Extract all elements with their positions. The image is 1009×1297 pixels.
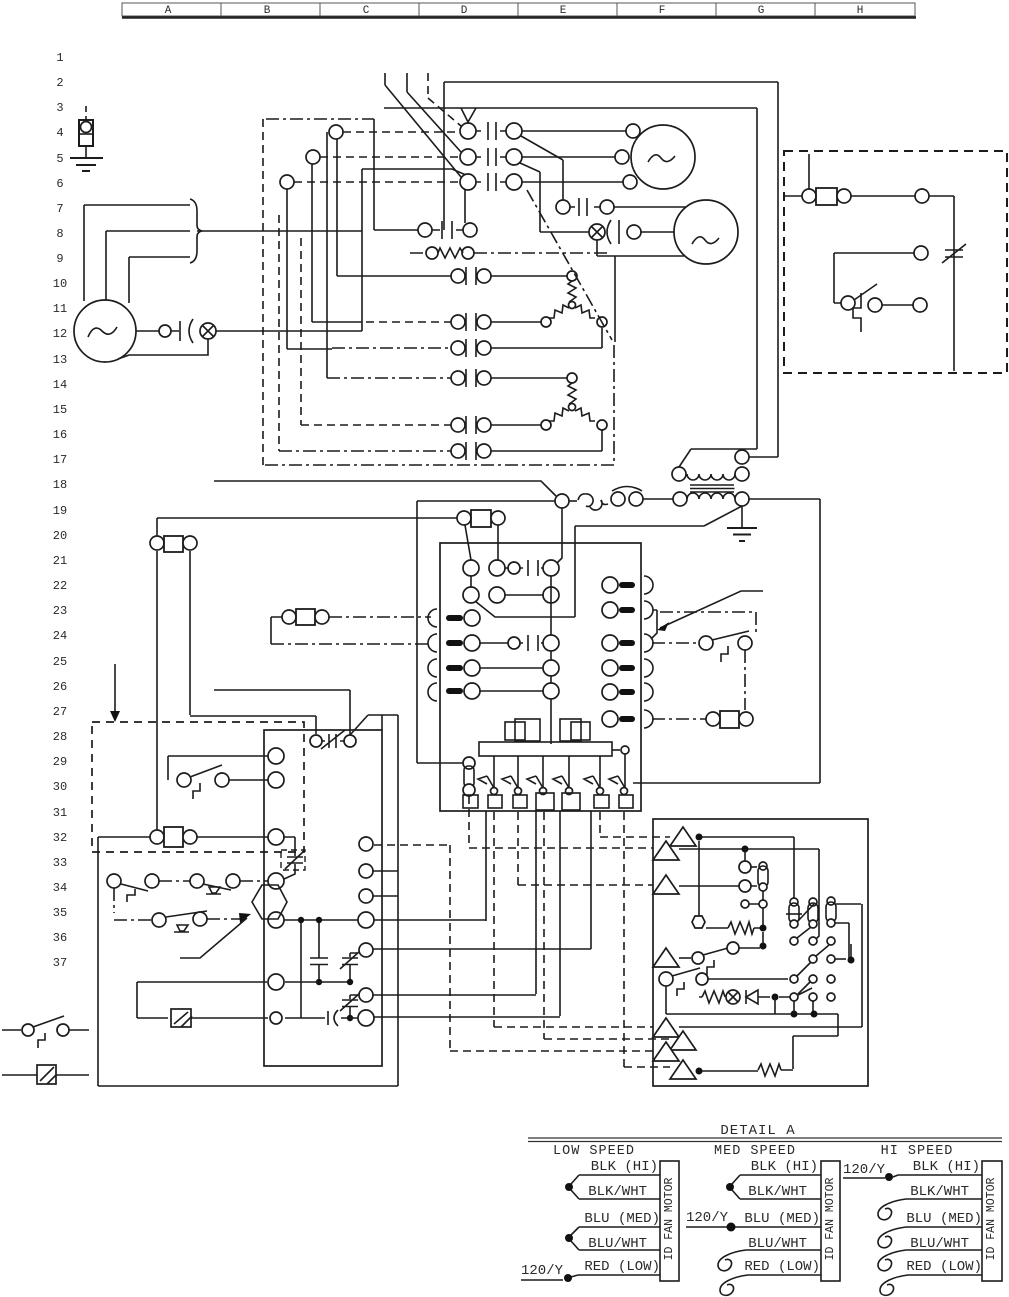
wire dash-dot top link (266, 118, 374, 120)
brace bundle (190, 199, 202, 263)
fan relay coil (98, 827, 268, 1086)
terminal board box (440, 543, 641, 811)
svg-text:24: 24 (53, 629, 67, 643)
wire low blu pair (571, 1227, 660, 1250)
svg-text:8: 8 (56, 227, 63, 241)
wire cap to motor (641, 231, 674, 233)
svg-text:LOW SPEED: LOW SPEED (553, 1144, 635, 1159)
bottom resistor (696, 1064, 793, 1076)
fan relay coil F (150, 536, 197, 552)
svg-text:16: 16 (53, 428, 67, 442)
svg-text:C: C (363, 5, 370, 17)
contact pair row12 (366, 313, 541, 331)
contact pair row8 (418, 221, 477, 239)
wire lamp bottom loop (597, 240, 684, 256)
wire tap pole1 to aux contact (521, 136, 563, 200)
plug triangle 2 (653, 841, 679, 860)
svg-text:1: 1 (56, 51, 63, 65)
contact pair row10 (337, 267, 567, 285)
board terminals left (268, 748, 284, 764)
svg-text:BLK (HI): BLK (HI) (591, 1159, 658, 1175)
node L2 plug (306, 150, 320, 164)
wire med red curl (720, 1275, 821, 1295)
wire relay bus (157, 518, 457, 536)
svg-text:3: 3 (56, 101, 63, 115)
node L3 plug (280, 175, 294, 189)
svg-text:17: 17 (53, 453, 67, 467)
thermostat dashed enclosure (92, 722, 304, 852)
wire side risers (98, 715, 398, 1086)
compressor motor M1 (74, 300, 136, 362)
svg-text:ID FAN MOTOR: ID FAN MOTOR (663, 1178, 676, 1261)
wire strip drops (494, 754, 625, 787)
board bus row (284, 919, 358, 921)
wire riser drop (444, 82, 465, 230)
wire supply stubs (385, 73, 407, 92)
wire hi red curl (880, 1275, 982, 1295)
pilot relay 2 (560, 719, 581, 741)
svg-text:6: 6 (56, 177, 63, 191)
wire timer to cam (851, 195, 915, 197)
transformer core (690, 485, 735, 492)
svg-text:32: 32 (53, 831, 67, 845)
svg-text:23: 23 (53, 604, 67, 618)
svg-text:12: 12 (53, 327, 67, 341)
wire main feed L (197, 169, 466, 331)
spare switch legend (2, 1016, 89, 1048)
svg-text:31: 31 (53, 806, 67, 820)
svg-text:7: 7 (56, 202, 63, 216)
resistor cartridge C (827, 897, 835, 905)
pressure switch (168, 756, 268, 799)
heater wye 1 (541, 271, 607, 327)
control board box (264, 730, 382, 1066)
speed switch 1 (679, 957, 691, 959)
plug triangle 6 (670, 1031, 696, 1050)
plug triangle 3 (653, 875, 679, 894)
plug triangle 1 (670, 827, 696, 846)
quick connect row 24 (428, 634, 559, 652)
wire CR drops (465, 525, 498, 560)
contact pair row15 (327, 369, 567, 387)
dropping resistor (693, 921, 760, 934)
quick connect row 26 (428, 683, 559, 701)
wire selector feed 3 (679, 885, 757, 887)
wire med blk pair (732, 1175, 821, 1199)
timer switch branch (914, 246, 928, 260)
svg-text:BLK/WHT: BLK/WHT (910, 1184, 969, 1200)
defrost relay coil (706, 711, 753, 728)
ID FAN MOTOR box low (660, 1161, 679, 1281)
resistor row9 (410, 247, 610, 259)
plug triangle 5 (653, 1018, 679, 1037)
resistor cartridge B (759, 862, 767, 870)
spare relay legend (2, 1065, 89, 1084)
svg-text:35: 35 (53, 906, 67, 920)
wire dash-dot diagonal (527, 190, 612, 340)
wire left risers (287, 132, 337, 378)
terminal row 21 (463, 560, 559, 576)
svg-text:37: 37 (53, 956, 67, 970)
wire oblong C top right (835, 904, 862, 1027)
wire terminal chain (471, 576, 551, 744)
wire v-tap to contactor (461, 108, 476, 122)
start lamp (200, 323, 216, 339)
wire selector feed 2 (679, 849, 819, 940)
wire breaker drop (557, 508, 562, 563)
pilot relay 1 (515, 719, 540, 741)
svg-text:19: 19 (53, 504, 67, 518)
contactor M pole 3 (460, 173, 637, 191)
svg-text:2: 2 (56, 76, 63, 90)
wire phase bundle horizontals (84, 205, 190, 257)
svg-text:14: 14 (53, 378, 67, 392)
wire board outputs (373, 871, 591, 1017)
svg-text:BLU (MED): BLU (MED) (744, 1211, 820, 1227)
contact pair row16 (301, 416, 541, 434)
wire dashed risers (279, 215, 301, 451)
svg-text:A: A (165, 5, 172, 17)
wire top bus B (384, 108, 757, 449)
low speed labels (584, 1159, 660, 1275)
annotation arrow (657, 591, 763, 631)
trimmer branch 2 (340, 993, 360, 1021)
svg-text:MED SPEED: MED SPEED (714, 1144, 796, 1159)
run capacitor (180, 319, 193, 343)
wire M1 run lead (136, 330, 179, 332)
plug triangle 7 (653, 1042, 679, 1061)
wire riser (374, 119, 418, 230)
trimmer contact (942, 244, 966, 263)
svg-text:RED (LOW): RED (LOW) (906, 1259, 982, 1275)
trimmer pot loop (283, 837, 295, 879)
wire tap pole2 to fan lamp (520, 163, 589, 232)
wire oblong C bottom right (835, 923, 849, 958)
svg-text:120/Y: 120/Y (843, 1162, 886, 1178)
svg-text:B: B (264, 5, 271, 17)
wire M1 leads left (84, 205, 129, 303)
svg-text:25: 25 (53, 655, 67, 669)
med speed labels (744, 1159, 820, 1275)
wire hi bluwht curl (878, 1250, 982, 1271)
terminal row 22 (463, 587, 559, 603)
svg-text:ID FAN MOTOR: ID FAN MOTOR (824, 1178, 837, 1261)
svg-text:D: D (461, 5, 468, 17)
wire drop (614, 256, 616, 342)
heater wye 2 (541, 373, 607, 430)
wire dashed box bottom (265, 345, 614, 465)
contactor M pole 2 (460, 148, 629, 166)
plug triangle 4 (653, 948, 679, 967)
annotation arrow down (114, 664, 116, 714)
grid top nodes (741, 900, 749, 908)
contact pair row13 (332, 328, 602, 357)
wire hi blu curl (878, 1227, 982, 1248)
svg-text:28: 28 (53, 730, 67, 744)
board terminals right (359, 837, 373, 851)
LED indicator row (699, 991, 725, 1003)
row numbers (53, 51, 67, 970)
wire low red (571, 1275, 660, 1277)
selector crossover (798, 904, 814, 921)
wire hi blkwht curl (878, 1199, 982, 1220)
ID FAN MOTOR box hi (982, 1161, 1002, 1281)
svg-text:4: 4 (56, 126, 63, 140)
svg-text:E: E (560, 5, 567, 17)
wire dashed box left edge (262, 119, 264, 465)
plug triangle 8 (670, 1060, 696, 1079)
wire supply diagonals (385, 85, 461, 177)
svg-text:15: 15 (53, 403, 67, 417)
wire med bluwht curl (718, 1250, 821, 1271)
wire dash-dot defrost links (652, 612, 756, 719)
quick connect row 23 (428, 609, 480, 627)
wire harness dashed drops (469, 796, 670, 1067)
fan run capacitor (607, 220, 619, 244)
wire relay to board (191, 1017, 268, 1019)
wire board loop (137, 982, 267, 1018)
wire primary feeds (679, 449, 778, 467)
wire top bus A (444, 82, 778, 457)
svg-text:120/Y: 120/Y (686, 1210, 729, 1226)
svg-text:21: 21 (53, 554, 67, 568)
svg-text:13: 13 (53, 353, 67, 367)
svg-text:36: 36 (53, 931, 67, 945)
transformer secondary (673, 492, 749, 506)
trimmer pot dashed (281, 850, 305, 870)
wire secondary to low voltage bus (633, 499, 820, 783)
svg-text:BLK/WHT: BLK/WHT (748, 1184, 807, 1200)
resistor cartridge A (790, 898, 798, 906)
start capacitor row 33 (285, 1010, 358, 1026)
svg-text:BLU (MED): BLU (MED) (584, 1211, 660, 1227)
ground (741, 506, 743, 528)
vertical branch (300, 923, 302, 1018)
svg-text:H: H (857, 5, 864, 17)
evaporator fan motor (674, 200, 738, 264)
svg-text:BLU (MED): BLU (MED) (906, 1211, 982, 1227)
svg-text:18: 18 (53, 478, 67, 492)
wire M1 bottom loop (118, 339, 208, 359)
wire row 31 (285, 981, 350, 983)
defrost sensor chain row 34 (107, 874, 268, 902)
svg-text:29: 29 (53, 755, 67, 769)
resistor cartridge B2 (809, 898, 817, 906)
transformer primary (672, 450, 749, 481)
hi speed labels (906, 1159, 982, 1275)
svg-text:HI SPEED: HI SPEED (881, 1144, 954, 1159)
wire selector common rail (666, 1001, 862, 1069)
svg-text:DETAIL A: DETAIL A (720, 1123, 795, 1139)
defrost timer dashed enclosure (784, 151, 1007, 373)
wire dashed feeds to contactor (294, 132, 459, 182)
wire low blk pair (571, 1175, 660, 1199)
contact pair row17 (279, 430, 602, 460)
border zone ruler (122, 3, 916, 18)
svg-text:BLK (HI): BLK (HI) (751, 1159, 818, 1175)
contactor M pole 1 (460, 122, 640, 140)
quick connect row 25 (428, 659, 559, 677)
chassis ground connector symbol (79, 106, 93, 158)
wire nut hexagon (252, 885, 287, 919)
svg-text:20: 20 (53, 529, 67, 543)
svg-text:F: F (659, 5, 666, 17)
wire selector bus (698, 841, 700, 921)
terminal strip (479, 742, 612, 756)
svg-text:27: 27 (53, 705, 67, 719)
run capacitor branch (310, 923, 328, 979)
svg-text:RED (LOW): RED (LOW) (584, 1259, 660, 1275)
heat relay coil (271, 609, 431, 644)
NC interlock contact (310, 715, 398, 749)
svg-text:22: 22 (53, 579, 67, 593)
svg-text:G: G (758, 5, 765, 17)
svg-text:5: 5 (56, 152, 63, 166)
wire timer feed (784, 154, 809, 196)
wire row 23 jumper (651, 610, 657, 639)
condenser fan motor (631, 125, 695, 189)
svg-text:120/Y: 120/Y (521, 1263, 564, 1279)
control relay CR coil (457, 510, 505, 527)
svg-text:30: 30 (53, 780, 67, 794)
defrost switch (699, 631, 752, 662)
timer switch (841, 284, 927, 312)
svg-text:RED (LOW): RED (LOW) (744, 1259, 820, 1275)
circuit breaker (555, 487, 673, 511)
wire lamp to feed (216, 164, 362, 331)
wire harness dashed loop (374, 845, 653, 1051)
svg-text:34: 34 (53, 881, 67, 895)
solid state relay (171, 1009, 192, 1027)
ground (70, 158, 103, 171)
terminal lugs (463, 793, 633, 810)
speed switch 2 (659, 972, 673, 986)
svg-text:BLK (HI): BLK (HI) (913, 1159, 980, 1175)
svg-text:ID FAN MOTOR: ID FAN MOTOR (985, 1178, 998, 1261)
speed selector box (653, 819, 868, 1086)
spade flags (478, 776, 628, 795)
svg-text:26: 26 (53, 680, 67, 694)
wire hi blk (898, 1174, 982, 1176)
defrost sensor chain row 35 (114, 888, 247, 932)
aux contact (556, 198, 686, 216)
wire control feed lower (417, 501, 555, 763)
wire harness solid drops (486, 811, 591, 1016)
ID FAN MOTOR box med (821, 1161, 840, 1281)
wire secondary tap (475, 506, 742, 617)
wire relay bus drops (157, 551, 350, 830)
wire selector feed 1 (696, 837, 794, 902)
svg-text:11: 11 (53, 302, 67, 316)
wire grid right (835, 958, 846, 960)
fuse (417, 757, 475, 796)
svg-text:9: 9 (56, 252, 63, 266)
thermal element (853, 293, 861, 332)
annotation arrow up (180, 913, 251, 958)
fan start lamp (589, 224, 605, 240)
selector contact grid (790, 927, 835, 1001)
wire control feed upper (214, 481, 556, 496)
trimmer branch 1 (340, 951, 360, 985)
svg-text:33: 33 (53, 856, 67, 870)
timer motor coil (802, 188, 851, 205)
node L1 plug (329, 125, 343, 139)
strip end node (612, 749, 620, 751)
svg-text:BLK/WHT: BLK/WHT (588, 1184, 647, 1200)
right quick connects rows 22-27 (602, 576, 653, 728)
svg-text:10: 10 (53, 277, 67, 291)
node run terminal (159, 325, 171, 337)
